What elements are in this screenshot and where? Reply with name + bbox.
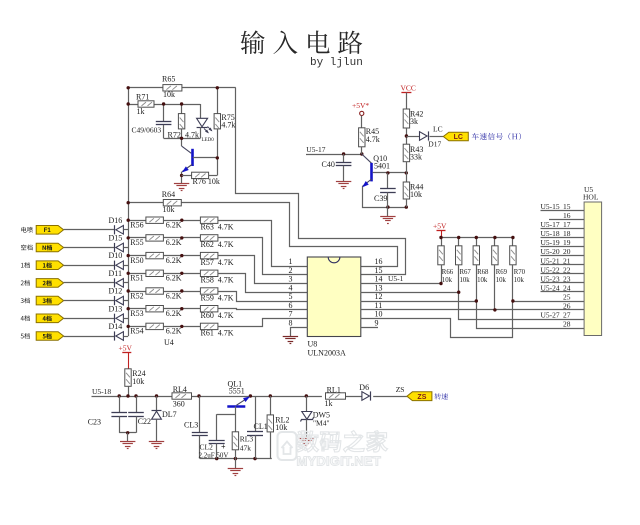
svg-text:33k: 33k [410,153,422,162]
svg-text:5: 5 [289,292,293,301]
svg-text:U5-1: U5-1 [388,274,404,283]
svg-text:15: 15 [375,266,383,275]
svg-text:4.7K: 4.7K [218,276,234,285]
svg-text:9: 9 [375,318,379,327]
svg-text:MYDIGIT.NET: MYDIGIT.NET [297,454,382,469]
svg-text:C39: C39 [374,194,387,203]
svg-text:"M4": "M4" [313,418,330,427]
svg-text:26: 26 [563,302,571,311]
svg-text:16: 16 [563,211,571,220]
svg-text:U5-23: U5-23 [541,274,560,283]
svg-text:11: 11 [375,301,383,310]
svg-text:LC: LC [433,125,443,134]
svg-text:D16: D16 [109,216,123,225]
svg-text:6.2K: 6.2K [166,327,182,336]
svg-text:16: 16 [375,257,383,266]
svg-text:DL7: DL7 [162,410,177,419]
svg-text:R63: R63 [201,223,214,232]
svg-text:12: 12 [375,292,383,301]
svg-text:6: 6 [289,301,293,310]
svg-text:4.7K: 4.7K [218,223,234,232]
svg-text:1k: 1k [325,399,333,408]
svg-text:CL1: CL1 [254,422,268,431]
svg-text:C49/0603: C49/0603 [132,126,162,135]
svg-text:R76 10k: R76 10k [193,177,220,186]
svg-text:U8: U8 [308,340,318,349]
svg-text:R51: R51 [130,274,143,283]
svg-text:3: 3 [289,275,293,284]
svg-text:4.7K: 4.7K [218,311,234,320]
svg-text:F1: F1 [44,228,52,234]
svg-text:U5-17: U5-17 [306,145,325,154]
svg-text:+5V: +5V [433,222,447,231]
svg-text:14: 14 [375,275,383,284]
svg-text:R57: R57 [201,258,214,267]
svg-text:U5-21: U5-21 [541,256,560,265]
svg-text:U5-15: U5-15 [541,202,560,211]
svg-text:3k: 3k [410,117,418,126]
svg-text:5401: 5401 [374,161,390,170]
svg-text:22: 22 [563,265,571,274]
svg-text:6.2K: 6.2K [166,221,182,230]
svg-text:4.7k: 4.7k [221,121,235,130]
svg-text:47k: 47k [240,444,252,453]
svg-text:6.2K: 6.2K [166,256,182,265]
svg-text:LED0: LED0 [202,138,215,143]
svg-text:U5-18: U5-18 [541,229,560,238]
svg-text:6.2K: 6.2K [166,291,182,300]
svg-text:23: 23 [563,274,571,283]
svg-text:D11: D11 [109,269,122,278]
svg-text:R68: R68 [477,269,489,276]
svg-text:10k: 10k [477,277,488,284]
svg-text:5551: 5551 [229,387,245,396]
svg-text:+5V: +5V [119,344,133,353]
svg-text:R62: R62 [201,240,214,249]
svg-text:R71: R71 [136,93,149,102]
svg-text:U5-24: U5-24 [541,283,560,292]
svg-text:+5V*: +5V* [352,101,369,110]
svg-text:D13: D13 [109,304,123,313]
svg-text:4: 4 [289,283,293,292]
svg-text:R50: R50 [130,256,143,265]
svg-text:10: 10 [375,310,383,319]
svg-text:R59: R59 [201,293,214,302]
svg-text:VCC: VCC [401,84,416,93]
svg-text:LC: LC [454,134,463,141]
svg-text:8: 8 [289,318,293,327]
svg-text:U4: U4 [164,338,174,347]
svg-text:D17: D17 [428,140,441,149]
svg-text:U5-20: U5-20 [541,247,560,256]
svg-text:10k: 10k [496,277,507,284]
svg-text:U5-18: U5-18 [92,387,111,396]
svg-text:10k: 10k [514,277,525,284]
svg-text:10k: 10k [442,277,453,284]
svg-text:10k: 10k [163,205,175,214]
svg-text:10k: 10k [132,377,144,386]
svg-text:10k: 10k [460,277,471,284]
svg-text:R60: R60 [201,311,214,320]
svg-text:D10: D10 [109,251,123,260]
svg-text:13: 13 [375,283,383,292]
svg-text:17: 17 [563,220,571,229]
svg-text:10k: 10k [275,423,287,432]
svg-text:R53: R53 [130,309,143,318]
svg-text:U5-27: U5-27 [541,311,560,320]
svg-text:6.2K: 6.2K [166,238,182,247]
svg-text:2: 2 [289,266,293,275]
svg-text:D6: D6 [359,383,369,392]
svg-text:20: 20 [563,247,571,256]
svg-text:6.2K: 6.2K [166,274,182,283]
svg-text:4.7K: 4.7K [218,293,234,302]
svg-text:R65: R65 [162,75,175,84]
svg-text:27: 27 [563,311,571,320]
svg-text:U5-19: U5-19 [541,238,560,247]
svg-text:+: + [221,443,226,452]
svg-text:R66: R66 [442,269,454,276]
svg-text:C23: C23 [88,418,101,427]
svg-text:15: 15 [563,202,571,211]
svg-text:28: 28 [563,320,571,329]
svg-text:C40: C40 [322,160,335,169]
svg-text:R61: R61 [201,329,214,338]
svg-text:18: 18 [563,229,571,238]
svg-text:CL3: CL3 [184,421,198,430]
svg-text:R67: R67 [460,269,472,276]
svg-text:U5-17: U5-17 [541,220,560,229]
svg-text:ZS: ZS [396,385,405,394]
svg-text:HOL: HOL [583,193,599,202]
svg-text:R70: R70 [514,269,526,276]
svg-text:R64: R64 [162,190,175,199]
svg-text:ZS: ZS [417,394,426,401]
svg-text:7: 7 [289,310,293,319]
svg-text:4.7K: 4.7K [218,258,234,267]
svg-text:D15: D15 [109,234,123,243]
svg-text:10k: 10k [163,90,175,99]
svg-text:R54: R54 [130,327,143,336]
svg-text:R52: R52 [130,291,143,300]
svg-text:R55: R55 [130,238,143,247]
svg-text:D12: D12 [109,287,123,296]
svg-text:R69: R69 [496,269,508,276]
svg-text:21: 21 [563,256,571,265]
svg-text:U5-22: U5-22 [541,265,560,274]
svg-text:1: 1 [289,257,293,266]
svg-text:19: 19 [563,238,571,247]
svg-text:R56: R56 [130,221,143,230]
svg-text:CL2: CL2 [200,443,214,452]
svg-text:1k: 1k [137,107,145,116]
svg-text:10k: 10k [410,190,422,199]
svg-text:by ljlun: by ljlun [310,57,363,69]
svg-text:4.7K: 4.7K [218,240,234,249]
svg-text:D14: D14 [109,322,123,331]
svg-text:C22: C22 [138,417,151,426]
svg-text:4.7K: 4.7K [218,329,234,338]
svg-text:25: 25 [563,293,571,302]
svg-text:6.2K: 6.2K [166,309,182,318]
svg-text:4.7k: 4.7k [366,135,380,144]
svg-text:24: 24 [563,283,571,292]
svg-text:R58: R58 [201,276,214,285]
svg-text:360: 360 [173,400,185,409]
svg-text:ULN2003A: ULN2003A [308,349,346,358]
svg-text:2.2uF 50V: 2.2uF 50V [199,452,229,460]
